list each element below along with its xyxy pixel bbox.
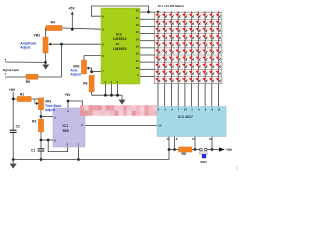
+5V arrow (bottom right) — [219, 147, 233, 152]
junction: pin 16 on +5V wire — [211, 148, 214, 151]
counter IC3 4017 body — [157, 107, 226, 137]
junction: pin stub on ground bus x=117.5 — [116, 94, 119, 97]
potentiometer VR2 (amplitude adjust) — [34, 33, 49, 53]
svg-text:C1: C1 — [31, 149, 35, 153]
potentiometer VR3 (axis adjust) — [81, 60, 86, 74]
svg-text:8: 8 — [176, 137, 178, 141]
svg-text:LM3915: LM3915 — [113, 47, 127, 51]
svg-text:R1: R1 — [20, 92, 24, 96]
VR1 wiper arrow — [35, 99, 39, 105]
junction: pin stub on ground bus x=111.5 — [110, 94, 113, 97]
junction: signal node (R5 / VR2 wiper / pin5) — [60, 43, 63, 46]
wire: IC2 pin 16 to matrix row 7 — [140, 54, 155, 56]
wire: IC2 pin 15 to matrix row 6 — [140, 47, 155, 49]
wire: IC2 pin 1 to matrix row 10 — [140, 75, 155, 77]
junction: matrix row-1 first column — [157, 11, 160, 14]
10x10 LED matrix frame — [155, 12, 222, 84]
op-amp/driver IC2 LM3914-LM3915 body — [101, 8, 140, 84]
VR3 wiper arrow — [86, 67, 89, 70]
wire: VR2 wiper to IC2 pin 5 (signal) — [50, 43, 102, 45]
svg-text:+5V: +5V — [226, 148, 233, 152]
svg-text:VR2: VR2 — [34, 33, 41, 37]
wire: R4 to IC2 pin 3 (+5V rail) — [62, 28, 101, 29]
wire: matrix column 9 to IC3 pin — [211, 84, 213, 107]
switch SW1 — [199, 148, 207, 164]
wire: IC2 bottom pin stub x=105.5 — [105, 84, 107, 95]
wire: IC2 pin 14 to matrix row 5 — [140, 40, 155, 42]
junction: pin 13 wire / reset bus — [168, 148, 171, 151]
VR2 wiper arrow — [48, 43, 51, 46]
input terminal tick (upper) — [5, 59, 6, 60]
matrix column wires — [158, 12, 219, 84]
wire: IC2 pin 9 mode loop over top to pin-10 row — [92, 6, 149, 16]
svg-text:12: 12 — [136, 23, 140, 27]
junction: pin 8 on bus — [173, 148, 176, 151]
svg-text:Adjust: Adjust — [20, 46, 31, 50]
LED matrix row 4 diodes — [155, 33, 220, 39]
resistor R2 — [32, 119, 44, 132]
wire: signal input to R5 — [5, 76, 26, 78]
wire: 555 pin 4 stub — [67, 101, 69, 108]
junction: VR3 wiper / R3 / IC2 pin 7 — [90, 70, 93, 73]
LED matrix row 9 diodes — [155, 69, 220, 75]
LED matrix row 3 diodes — [155, 26, 220, 32]
wire: R5 to signal node riser — [38, 76, 62, 78]
junction: 555 pins 4-8 +5V node — [67, 100, 70, 103]
junction: 555 pin 1 on ground rail — [77, 158, 80, 161]
matrix row lines — [155, 19, 222, 76]
wire: IC2 pin 12 to matrix row 3 — [140, 25, 155, 27]
junction: C1 on ground rail — [40, 158, 43, 161]
wire: IC2 bottom pin stub x=111.5 — [111, 84, 113, 95]
junction: VR2 bottom / input ground wire — [44, 61, 47, 64]
wire: IC2 pin 13 to matrix row 4 — [140, 33, 155, 35]
ground (below VR2) — [43, 65, 49, 70]
resistor R1 — [17, 92, 31, 101]
junction: ground rail left end — [12, 158, 15, 161]
wire: +5V trunk upper — [12, 92, 14, 130]
svg-text:R5: R5 — [26, 80, 30, 84]
svg-text:IC3 4017: IC3 4017 — [178, 115, 193, 119]
wire: VR3 top lead — [83, 56, 85, 61]
junction: pin2 loop onto pin6 wire — [47, 139, 50, 142]
resistor R3 — [83, 75, 94, 92]
wire: input ground terminal to VR2 bottom — [5, 61, 46, 63]
wire: IC2 pin 11 to matrix row 2 — [140, 18, 155, 20]
wire: matrix column 6 to IC3 pin — [191, 84, 193, 107]
svg-text:Adjust: Adjust — [45, 108, 56, 112]
timer IC1 555 body — [53, 108, 85, 147]
svg-text:Adjust: Adjust — [71, 73, 82, 77]
wire: R4 left lead down to VR2 top — [45, 28, 48, 37]
LED matrix row 6 diodes — [155, 47, 220, 53]
junction: pin 15 / switch node — [194, 148, 197, 151]
svg-text:14: 14 — [158, 124, 162, 128]
wire: matrix column 8 to IC3 pin — [204, 84, 206, 107]
svg-text:R6: R6 — [182, 152, 186, 156]
wire: IC2 pin 18 to matrix row 9 — [140, 68, 155, 70]
junction: VR1-R2 / 555 pin 7 — [40, 115, 43, 118]
svg-text:16: 16 — [136, 52, 140, 56]
svg-text:13: 13 — [136, 30, 140, 34]
LED matrix row 7 diodes — [155, 54, 220, 60]
wire: node to 555 pin 6 — [41, 139, 53, 141]
svg-text:10 x 10 LED Matrix: 10 x 10 LED Matrix — [158, 4, 185, 8]
LED matrix row 2 diodes — [155, 19, 220, 25]
wire: reset bus left segment — [169, 149, 179, 151]
svg-text:10: 10 — [136, 9, 140, 13]
svg-text:LM3914: LM3914 — [113, 37, 127, 41]
wire: IC3 pin 13 down to ground rail — [168, 137, 170, 160]
junction: R2 / C1 / 555 pin 6 node — [40, 139, 43, 142]
LED matrix row 10 diodes — [155, 76, 220, 82]
LED matrix row 5 diodes — [155, 40, 220, 46]
resistor R5 (input series) — [26, 74, 38, 84]
svg-text:R3: R3 — [83, 81, 87, 85]
wire: ground rail — [13, 159, 169, 161]
junction: +5V riser / R4 wire — [71, 28, 74, 31]
wire: signal node down to R5 — [61, 44, 63, 77]
wire: IC3 pin 16 to +5V wire — [211, 137, 213, 150]
svg-text:+5V: +5V — [68, 7, 75, 11]
wire: matrix column 10 to IC3 pin — [218, 84, 220, 107]
svg-text:C2: C2 — [16, 125, 20, 129]
wire: R2 bottom to C1 top — [40, 132, 42, 149]
svg-text:14: 14 — [136, 37, 140, 41]
wire: 555 pin 8 tie loop — [68, 101, 83, 108]
wire: R1 to VR1 — [13, 98, 38, 100]
svg-text:IC1: IC1 — [63, 124, 69, 128]
wire: matrix column 1 to IC3 pin — [157, 84, 159, 107]
wire: 555 pin 1 to ground rail — [78, 147, 80, 160]
svg-text:11: 11 — [136, 16, 139, 20]
wire: R3 bottom lead — [91, 92, 93, 95]
svg-text:13: 13 — [166, 137, 170, 141]
svg-text:SW1: SW1 — [200, 160, 207, 164]
svg-text:+5V: +5V — [65, 93, 72, 97]
junction: mode loop onto row wire — [147, 11, 150, 14]
wire: VR3 top to IC2 pin 6 — [84, 55, 101, 57]
wire: switch to +5V arrow — [207, 149, 219, 151]
capacitor C2 — [10, 125, 20, 133]
pixelated watermark band — [80, 105, 157, 116]
LED matrix row 8 diodes — [155, 62, 220, 68]
wire: node to 555 pin 7 — [41, 116, 53, 118]
junction: pin stub on ground bus x=105.5 — [104, 94, 107, 97]
wire: matrix column 3 to IC3 pin — [170, 84, 172, 107]
junction: R1 tap on +5V trunk — [12, 98, 15, 101]
svg-text:R2: R2 — [32, 120, 36, 124]
svg-text:18: 18 — [136, 66, 140, 70]
wire: ground stem below VR2 — [45, 62, 47, 65]
wire: 555 pin 3 output to IC3 pin 14 (clock) — [85, 124, 157, 126]
wire: VR2 bottom down to ground node — [45, 53, 47, 62]
ground (IC2 pins 2,4,8) — [119, 100, 125, 105]
wire: IC2 pin 10 to matrix row 1 — [140, 11, 155, 13]
wire: ground bus down to ground symbol — [121, 95, 123, 100]
svg-text:15: 15 — [136, 44, 140, 48]
wire: trunk lower to ground rail — [12, 133, 14, 160]
capacitor C1 — [31, 149, 44, 153]
wire: R6 to switch — [192, 149, 200, 151]
svg-text:10: 10 — [184, 108, 188, 112]
wire: IC3 pin 8 to reset bus — [174, 137, 176, 150]
ground (bottom left) — [10, 164, 16, 169]
wire: node to IC2 pin 7 — [92, 71, 101, 73]
wire: ground stem (bottom left) — [12, 160, 14, 165]
stray mark bottom right — [236, 167, 239, 171]
wire: matrix column 2 to IC3 pin — [164, 84, 166, 107]
LED matrix row 1 diodes — [155, 12, 220, 18]
wire: IC2 pin 17 to matrix row 8 — [140, 61, 155, 63]
input terminal tick (lower) — [5, 73, 6, 74]
wire: ground bus under IC2 (pins 2,4,8) — [92, 94, 122, 96]
wire: matrix column 5 to IC3 pin — [184, 84, 186, 107]
wire: VR3 wiper to R3 top node — [88, 68, 92, 72]
svg-text:Signal Input: Signal Input — [3, 68, 20, 72]
wire: matrix column 4 to IC3 pin — [177, 84, 179, 107]
wire: C1 bottom to ground rail — [40, 151, 42, 159]
wire: matrix column 7 to IC3 pin — [197, 84, 199, 107]
wire: IC3 pin 15 to reset bus — [194, 137, 196, 150]
wire: VR1 bottom to R2 top — [40, 110, 42, 119]
resistor R6 — [179, 147, 193, 156]
svg-text:555: 555 — [63, 129, 69, 133]
potentiometer VR1 (time base) — [38, 98, 43, 110]
resistor R4 — [46, 21, 62, 31]
svg-text:or: or — [116, 42, 120, 46]
svg-text:11: 11 — [217, 108, 220, 112]
svg-text:+5V: +5V — [9, 88, 16, 92]
svg-text:R4: R4 — [51, 21, 55, 25]
svg-text:17: 17 — [136, 59, 140, 63]
+5V arrow (top) — [71, 11, 74, 29]
wire: 555 pin 2 tie to pin 6 — [48, 140, 67, 152]
wire: IC2 bottom pin stub x=117.5 — [117, 84, 119, 95]
svg-text:IC2: IC2 — [116, 32, 122, 36]
